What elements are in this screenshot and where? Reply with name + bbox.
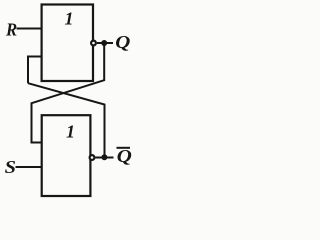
node Qbar junction dot [101, 154, 107, 160]
svg-text:S: S [5, 158, 16, 178]
wire U2 output to Qbar [95, 157, 113, 159]
svg-text:Q: Q [115, 33, 130, 52]
svg-text:Q: Q [117, 147, 132, 166]
svg-text:1: 1 [65, 9, 74, 29]
NOR gate U2 (bottom) body [42, 115, 91, 196]
wire Q feedback: down, diagonal, down into U2 input [32, 45, 105, 143]
wire Qbar feedback stub into U1 second input [28, 57, 41, 84]
wire diagonal Qbar feedback (left riser to right riser) [28, 83, 105, 156]
node Q junction dot [101, 40, 107, 46]
wire R to U1 input [17, 28, 42, 30]
NOR gate U1 (top) body [42, 5, 93, 82]
inversion bubble U1 output [91, 41, 96, 46]
inversion bubble U2 output [90, 155, 95, 160]
wire S to U2 input [16, 166, 42, 168]
wire U1 output to Q [97, 42, 113, 44]
svg-text:R: R [5, 20, 17, 40]
output label Qbar overline [117, 147, 131, 149]
svg-text:1: 1 [66, 122, 75, 142]
